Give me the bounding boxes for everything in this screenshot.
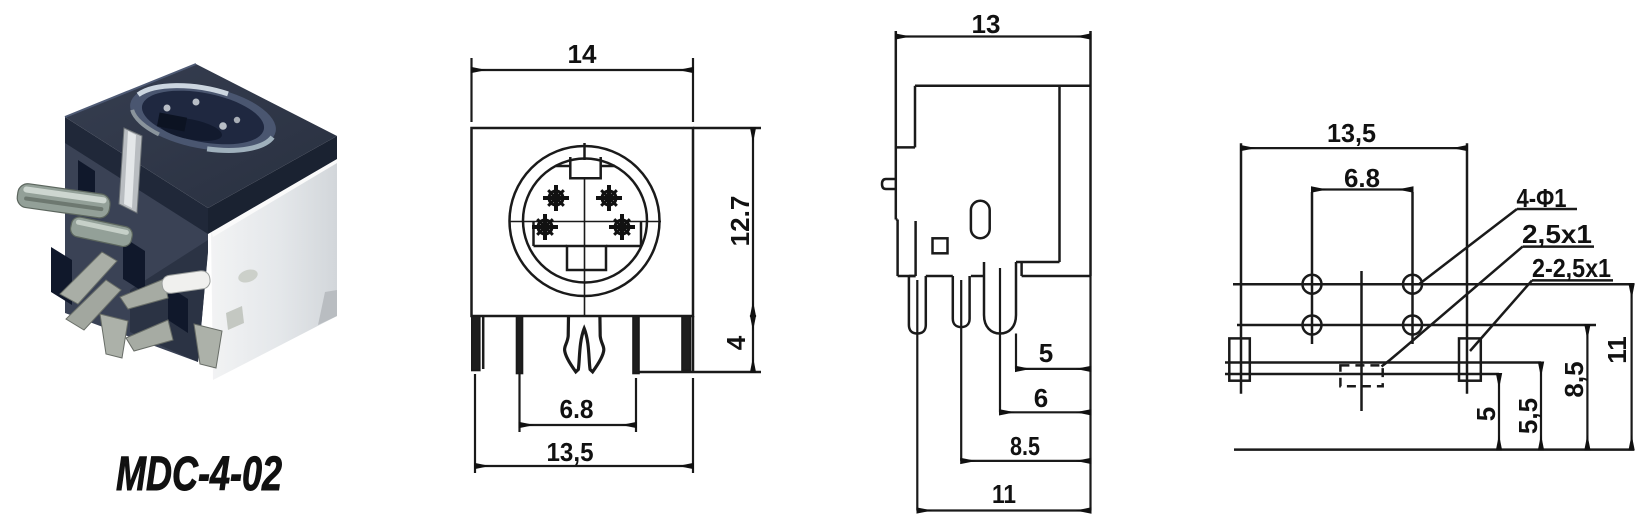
svg-text:6.8: 6.8 — [1344, 163, 1380, 193]
svg-text:6.8: 6.8 — [560, 394, 594, 424]
svg-text:6: 6 — [1034, 383, 1048, 413]
svg-text:13,5: 13,5 — [547, 437, 594, 467]
svg-text:2,5x1: 2,5x1 — [1522, 219, 1592, 249]
svg-text:5: 5 — [1039, 338, 1053, 368]
svg-text:11: 11 — [1602, 336, 1632, 364]
svg-text:14: 14 — [568, 39, 597, 69]
svg-text:12.7: 12.7 — [725, 196, 755, 247]
svg-text:5,5: 5,5 — [1513, 398, 1543, 434]
svg-text:13: 13 — [972, 9, 1001, 39]
svg-text:13,5: 13,5 — [1327, 118, 1376, 148]
svg-text:11: 11 — [992, 479, 1016, 509]
svg-text:MDC-4-02: MDC-4-02 — [116, 448, 282, 501]
svg-text:5: 5 — [1471, 407, 1501, 421]
svg-text:4: 4 — [721, 335, 751, 350]
svg-text:2-2,5x1: 2-2,5x1 — [1532, 253, 1611, 283]
svg-text:4-Φ1: 4-Φ1 — [1517, 183, 1567, 213]
svg-text:8.5: 8.5 — [1010, 431, 1040, 461]
svg-text:8,5: 8,5 — [1559, 361, 1589, 397]
